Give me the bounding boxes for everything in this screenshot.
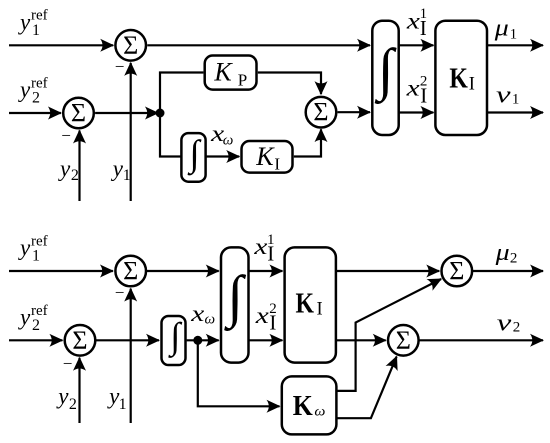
svg-text:1: 1 xyxy=(32,248,40,265)
wire y1ref input (top) xyxy=(9,44,113,46)
svg-text:2: 2 xyxy=(71,167,79,184)
svg-text:ref: ref xyxy=(31,233,48,249)
wire S3 to integrator tall (top) xyxy=(338,111,370,113)
svg-text:ω: ω xyxy=(205,311,216,327)
wire integrator tall out1 (bottom) xyxy=(249,270,283,272)
wire y1 feedback (top) xyxy=(130,63,132,201)
svg-text:1: 1 xyxy=(512,92,520,108)
node junction dot (top) xyxy=(156,109,165,118)
svg-text:I: I xyxy=(267,242,274,266)
svg-text:Σ: Σ xyxy=(71,98,86,127)
svg-text:ω: ω xyxy=(314,405,325,420)
svg-text:1: 1 xyxy=(32,22,40,39)
svg-text:y: y xyxy=(18,9,31,34)
label xI2 (bottom) xyxy=(255,301,277,335)
wire KI out2 to S7 (bottom) xyxy=(336,339,386,341)
block KI small (top) xyxy=(242,141,293,173)
svg-text:∫: ∫ xyxy=(167,316,182,358)
svg-text:Σ: Σ xyxy=(396,326,411,355)
summing junction S5 (bottom) xyxy=(65,325,96,356)
svg-text:Σ: Σ xyxy=(449,256,464,285)
label nu2 xyxy=(497,310,520,336)
wire mu2 output (bottom) xyxy=(472,270,543,272)
svg-text:I: I xyxy=(420,83,427,107)
integrator block small (bottom) xyxy=(162,316,186,365)
svg-text:∫: ∫ xyxy=(223,263,246,331)
svg-text:K: K xyxy=(293,391,313,422)
wire Komega out2 to S7 xyxy=(336,357,396,419)
label y1 (top) xyxy=(111,156,131,184)
block KP xyxy=(205,56,257,90)
svg-text:y: y xyxy=(18,305,31,330)
wire integrator to KI small (top) xyxy=(206,155,239,157)
wire nu1 output (top) xyxy=(487,111,543,113)
wire integrator tall out2 (bottom) xyxy=(249,339,283,341)
svg-text:K: K xyxy=(296,289,315,320)
svg-text:1: 1 xyxy=(510,26,517,42)
summing junction S6 (bottom) xyxy=(442,256,473,287)
wire y2ref input (top) xyxy=(9,112,61,114)
svg-text:K: K xyxy=(449,64,468,95)
svg-text:y: y xyxy=(18,235,31,260)
svg-text:Σ: Σ xyxy=(313,98,328,127)
svg-text:2: 2 xyxy=(69,396,77,413)
wire y1ref input (bottom) xyxy=(9,270,113,272)
wire KI small to S3 xyxy=(294,129,321,156)
label xI1 (bottom) xyxy=(253,232,274,266)
svg-text:μ: μ xyxy=(494,240,509,266)
svg-text:∫: ∫ xyxy=(187,134,202,176)
svg-text:2: 2 xyxy=(510,251,518,267)
label y1ref (top) xyxy=(18,8,48,39)
wire integrator tall out1 (top) xyxy=(399,44,434,46)
svg-text:y: y xyxy=(18,77,31,102)
svg-text:I: I xyxy=(420,16,427,40)
svg-text:x: x xyxy=(406,8,421,33)
svg-text:K: K xyxy=(213,57,233,86)
svg-text:I: I xyxy=(269,311,276,335)
integrator block tall (top) xyxy=(372,21,398,135)
label mu1 xyxy=(494,15,517,42)
svg-text:ω: ω xyxy=(223,133,234,149)
label xI2 (top) xyxy=(405,74,427,108)
summing junction S3 (top) xyxy=(306,97,337,128)
block Komega gain matrix xyxy=(282,376,337,434)
wire node to Komega (bottom) xyxy=(198,340,280,406)
svg-text:I: I xyxy=(274,154,280,173)
svg-text:2: 2 xyxy=(513,320,521,336)
block KI gain matrix (bottom) xyxy=(285,247,336,362)
wire integrator tall out2 (top) xyxy=(399,111,434,113)
wire KI out1 to S6 (bottom) xyxy=(336,270,439,272)
svg-text:ref: ref xyxy=(31,8,48,24)
summing junction S2 (top) xyxy=(63,98,94,129)
svg-text:y: y xyxy=(56,383,69,408)
label xI1 (top) xyxy=(406,6,427,40)
svg-text:x: x xyxy=(405,76,420,101)
svg-text:μ: μ xyxy=(494,15,509,41)
label y1 (bottom) xyxy=(107,383,127,413)
svg-text:−: − xyxy=(115,283,125,302)
svg-text:−: − xyxy=(63,354,73,373)
wire S2 to node (top) xyxy=(95,112,158,114)
svg-text:ref: ref xyxy=(31,303,48,319)
svg-text:ν: ν xyxy=(497,310,512,336)
wire y2ref input (bottom) xyxy=(9,339,62,341)
svg-text:ν: ν xyxy=(496,83,511,109)
integrator block tall (bottom) xyxy=(221,247,249,362)
integrator block small (top) xyxy=(181,133,205,182)
wire S4 to integrator tall (bottom) xyxy=(146,270,219,272)
wire y2 feedback (bottom) xyxy=(78,358,80,423)
svg-text:K: K xyxy=(255,142,275,171)
block KI gain matrix (top) xyxy=(435,21,487,135)
svg-text:2: 2 xyxy=(32,317,40,334)
wire nu2 output (bottom) xyxy=(419,339,543,341)
wire y1 feedback (bottom) xyxy=(130,289,132,423)
label y2 (top) xyxy=(58,156,79,184)
svg-text:−: − xyxy=(61,126,71,145)
label mu2 xyxy=(494,240,517,267)
svg-text:∫: ∫ xyxy=(374,36,397,104)
summing junction S7 (bottom) xyxy=(388,325,419,356)
svg-text:x: x xyxy=(190,301,205,326)
label y1ref (bottom) xyxy=(18,233,48,264)
svg-text:ref: ref xyxy=(31,75,48,91)
svg-text:P: P xyxy=(238,70,247,89)
svg-text:−: − xyxy=(115,57,125,76)
label nu1 xyxy=(496,83,519,109)
svg-text:Σ: Σ xyxy=(72,326,87,355)
wire y2 feedback (top) xyxy=(78,131,80,202)
label y2 (bottom) xyxy=(56,383,77,413)
label y2ref (top) xyxy=(18,75,48,106)
svg-text:I: I xyxy=(469,75,475,95)
wire S1 to integrator block (top) xyxy=(147,44,370,46)
svg-text:2: 2 xyxy=(32,90,40,107)
summing junction S1 (top) xyxy=(115,30,146,61)
wire KP to S3 xyxy=(258,73,321,95)
label y2ref (bottom) xyxy=(18,303,48,334)
wire Komega out1 to S6 xyxy=(336,279,441,391)
label x_omega (top) xyxy=(210,121,233,149)
svg-text:y: y xyxy=(111,156,124,181)
svg-text:x: x xyxy=(255,303,270,328)
svg-text:1: 1 xyxy=(123,167,131,184)
label x_omega (bottom) xyxy=(190,301,215,328)
svg-text:1: 1 xyxy=(119,396,127,413)
svg-text:Σ: Σ xyxy=(123,31,138,60)
summing junction S4 (bottom) xyxy=(115,256,146,287)
wire branch node to KP and integrator (top) xyxy=(160,73,203,157)
wire integrator small to node (bottom) xyxy=(187,339,219,341)
wire S5 to integrator small (bottom) xyxy=(95,339,159,341)
node junction dot (bottom) xyxy=(193,336,202,345)
wire mu1 output (top) xyxy=(487,44,543,46)
svg-text:I: I xyxy=(317,299,323,319)
svg-text:Σ: Σ xyxy=(123,256,138,285)
svg-text:y: y xyxy=(58,156,71,181)
